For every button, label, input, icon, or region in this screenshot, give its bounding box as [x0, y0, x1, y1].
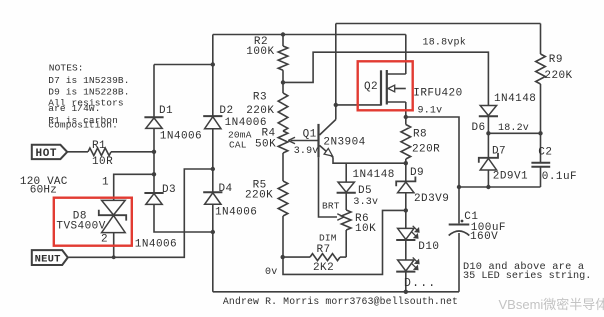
junction bridge top: [211, 62, 215, 66]
TVS diode D8 crossbar: [99, 210, 126, 221]
svg-text:HOT: HOT: [36, 148, 58, 160]
LED D10 first: [396, 239, 415, 241]
wire Q1 base drop to R6 wiper: [319, 157, 338, 217]
svg-text:2D3V9: 2D3V9: [414, 193, 449, 205]
svg-text:3.3v: 3.3v: [353, 197, 378, 208]
junction R2 top: [281, 32, 285, 36]
svg-text:160V: 160V: [470, 231, 498, 243]
svg-text:D...: D...: [404, 277, 436, 290]
junction D8-NEUT: [112, 255, 116, 259]
R4 wiper arrow: [291, 140, 319, 142]
wire D1-D3 column mid: [153, 128, 155, 193]
wire HOT to R1: [67, 151, 88, 153]
wire 9.1v bus under D7/C2: [459, 186, 541, 188]
wire R9 top lead: [540, 24, 542, 55]
wire Q2 drain riser: [405, 35, 407, 75]
svg-text:2K2: 2K2: [313, 262, 334, 274]
junction D8-D1 column: [152, 172, 156, 176]
Q1 emitter: [320, 145, 334, 157]
terminal NEUT: [32, 250, 68, 265]
junction emitter-R8-D9 node: [404, 161, 408, 165]
svg-text:D1: D1: [159, 105, 173, 117]
Q2 channel bar: [386, 70, 388, 105]
svg-text:0v: 0v: [265, 267, 277, 278]
diode D4 1N4006: [203, 191, 222, 193]
capacitor C1 curved plate: [449, 231, 470, 236]
svg-text:35 LED series string.: 35 LED series string.: [463, 270, 591, 282]
D10 light arrows: [412, 226, 419, 237]
svg-text:Andrew R. Morris morr3763@bel: Andrew R. Morris morr3763@bellsouth.net: [223, 296, 458, 307]
wire 18.2v link: [488, 132, 540, 134]
svg-text:NOTES:: NOTES:: [49, 63, 84, 74]
svg-text:R3: R3: [253, 92, 267, 104]
svg-text:D6: D6: [472, 122, 486, 134]
wire top rail W0 (Q1 collector node to R9): [336, 23, 541, 25]
svg-text:D5: D5: [358, 185, 372, 197]
wire R2 top lead: [282, 35, 284, 47]
wire D5-R6 lead: [345, 193, 347, 210]
svg-text:VBsemi微密半导体: VBsemi微密半导体: [499, 297, 604, 312]
diode D5 1N4148: [337, 192, 356, 194]
svg-text:DIM: DIM: [319, 233, 337, 244]
wire D9 to D10 column: [405, 193, 407, 229]
wire C2 bottom lead: [540, 167, 542, 187]
svg-text:220K: 220K: [245, 190, 273, 202]
Q2 drain stub: [387, 73, 406, 75]
svg-text:D9 is 1N5228B.: D9 is 1N5228B.: [48, 87, 129, 98]
terminal HOT: [32, 145, 67, 159]
svg-text:1N4006: 1N4006: [225, 117, 267, 129]
capacitor C1 top plate: [449, 224, 470, 226]
wire D5 top lead: [345, 163, 347, 182]
diode D2 1N4006: [203, 115, 222, 117]
svg-text:D2: D2: [219, 105, 233, 117]
svg-text:BRT: BRT: [322, 201, 340, 212]
wire Q1 collector riser: [335, 24, 337, 120]
Q1 emitter arrow: [324, 148, 333, 156]
wire D6-D7 link: [487, 117, 489, 158]
svg-text:10K: 10K: [355, 223, 376, 235]
wire R9 bottom to C2: [540, 84, 542, 162]
wire 9.1v node to C1: [406, 102, 459, 223]
wire D1 column upper: [153, 65, 155, 118]
wire C1 bottom lead: [458, 233, 460, 292]
red highlight box around Q2: [358, 61, 413, 110]
svg-text:composition.: composition.: [48, 119, 118, 130]
svg-text:R8: R8: [413, 128, 427, 140]
Q2 body stub: [395, 88, 406, 90]
svg-text:are 1/4W.: are 1/4W.: [48, 103, 100, 114]
svg-text:60Hz: 60Hz: [30, 185, 57, 197]
C1 polarity mark: [461, 220, 464, 223]
zener diode D7 2D9V1: [479, 153, 498, 163]
svg-text:C2: C2: [538, 146, 552, 158]
wire Q1 emitter run: [333, 157, 406, 163]
wire R8 bottom lead / D9 top: [405, 159, 407, 181]
R6 wiper arrow: [337, 214, 344, 221]
junction 9.1v node: [404, 115, 408, 119]
svg-text:D7: D7: [492, 146, 506, 158]
Q1 collector: [320, 120, 336, 136]
zener diode D9 2D3V9: [396, 177, 415, 187]
resistor R9: [536, 54, 546, 84]
diode D3 1N4006: [144, 192, 163, 194]
junction LED string bottom: [404, 290, 408, 294]
svg-text:1N4006: 1N4006: [160, 131, 202, 143]
svg-text:D4: D4: [219, 183, 233, 195]
svg-text:100K: 100K: [246, 46, 274, 58]
wire D4 column lower to bottom rail: [212, 204, 214, 291]
junction 18.2v right: [538, 131, 542, 135]
wire D10 mid lead: [405, 240, 407, 260]
svg-text:0.1uF: 0.1uF: [542, 171, 577, 183]
svg-text:220K: 220K: [246, 105, 274, 117]
svg-text:IRFU420: IRFU420: [413, 88, 462, 100]
junction R7 left: [281, 255, 285, 259]
svg-text:220K: 220K: [544, 70, 572, 82]
wire D2 column upper: [212, 35, 214, 117]
junction 18.2v left: [486, 131, 490, 135]
wire R6 bottom to R7: [345, 230, 347, 257]
junction D3-D4 bottom: [211, 230, 215, 234]
wire R1 to bridge: [111, 151, 154, 153]
svg-text:TVS400V: TVS400V: [56, 221, 105, 233]
wire R4-R5 lead: [282, 153, 284, 181]
junction R2 bottom: [281, 80, 285, 84]
svg-text:NEUT: NEUT: [35, 254, 61, 266]
potentiometer R6: [341, 210, 351, 230]
junction D7 bottom: [486, 185, 490, 189]
resistor R7: [310, 254, 340, 261]
transistor Q1 2N3904 base bar: [317, 124, 319, 157]
svg-text:2N3904: 2N3904: [323, 137, 365, 149]
LED D10 second: [396, 271, 415, 273]
diode D6 1N4148: [479, 115, 498, 117]
svg-text:Q1: Q1: [303, 128, 317, 140]
wire bottom rail: [213, 291, 459, 293]
wire D7 bottom lead: [487, 170, 489, 187]
wire D10 bottom lead: [405, 272, 407, 292]
junction NEUT-D2 column: [211, 167, 215, 171]
svg-text:D10: D10: [418, 241, 439, 253]
potentiometer R4: [278, 131, 288, 153]
Q2 source stub: [387, 101, 406, 103]
wire R7 right lead: [340, 256, 346, 258]
svg-text:10R: 10R: [92, 156, 113, 168]
svg-text:1N4006: 1N4006: [135, 239, 177, 251]
resistor R2: [278, 46, 288, 70]
svg-text:50K: 50K: [255, 139, 276, 151]
svg-text:1N4148: 1N4148: [353, 169, 395, 181]
D10b light arrows: [412, 257, 419, 268]
junction HOT-D1 column: [152, 150, 156, 154]
wire D8 bottom lead: [113, 233, 115, 258]
wire D3 column lower + bottom link: [154, 204, 213, 232]
red highlight box around D8: [54, 198, 132, 246]
svg-text:R9: R9: [549, 54, 563, 66]
svg-text:2: 2: [101, 234, 108, 246]
svg-text:1N4148: 1N4148: [494, 93, 536, 105]
svg-text:1N4006: 1N4006: [215, 207, 257, 219]
svg-text:9.1v: 9.1v: [418, 105, 443, 116]
junction 0v-LED column: [404, 208, 408, 212]
wire 18.8vpk line: [283, 52, 488, 105]
wire W1 top rail (bridge output to Q2 drain): [213, 34, 406, 36]
wire Q2 gate: [336, 104, 381, 106]
svg-text:3.9v: 3.9v: [294, 146, 319, 157]
svg-text:R1: R1: [92, 140, 106, 152]
wire R7 left lead: [283, 256, 310, 258]
svg-text:D7 is 1N5239B.: D7 is 1N5239B.: [48, 75, 129, 86]
wire D8 top link: [114, 174, 154, 200]
Q2 body arrow: [388, 85, 395, 92]
svg-text:2D9V1: 2D9V1: [493, 171, 528, 183]
capacitor C2 plates: [531, 162, 550, 164]
wire NEUT run: [68, 169, 213, 257]
wire D2-D4 column mid: [212, 129, 214, 193]
svg-text:D3: D3: [162, 184, 176, 196]
junction C1 riser: [457, 185, 461, 189]
wire R5 to 0v corner: [283, 210, 406, 274]
svg-text:18.2v: 18.2v: [498, 123, 529, 134]
MOSFET Q2 IRFU420 gate bar: [380, 70, 382, 105]
svg-text:D9: D9: [410, 167, 424, 179]
TVS diode D8 bottom triangle: [102, 215, 126, 232]
junction Q2 gate node: [334, 103, 338, 107]
diode D1 1N4006: [144, 116, 163, 118]
resistor R8: [401, 125, 411, 160]
resistor R1: [88, 148, 111, 156]
svg-text:R7: R7: [317, 244, 331, 256]
resistor R5: [278, 181, 288, 216]
wire R2-R3 leads: [282, 70, 284, 93]
resistor R3: [278, 93, 288, 131]
svg-text:18.8vpk: 18.8vpk: [423, 37, 466, 49]
svg-text:Q2: Q2: [364, 81, 378, 93]
TVS diode D8 top triangle: [102, 200, 126, 215]
svg-text:1: 1: [102, 177, 109, 189]
svg-text:220R: 220R: [412, 143, 440, 155]
wire bridge top link: [154, 64, 213, 66]
svg-text:CAL: CAL: [229, 140, 247, 151]
